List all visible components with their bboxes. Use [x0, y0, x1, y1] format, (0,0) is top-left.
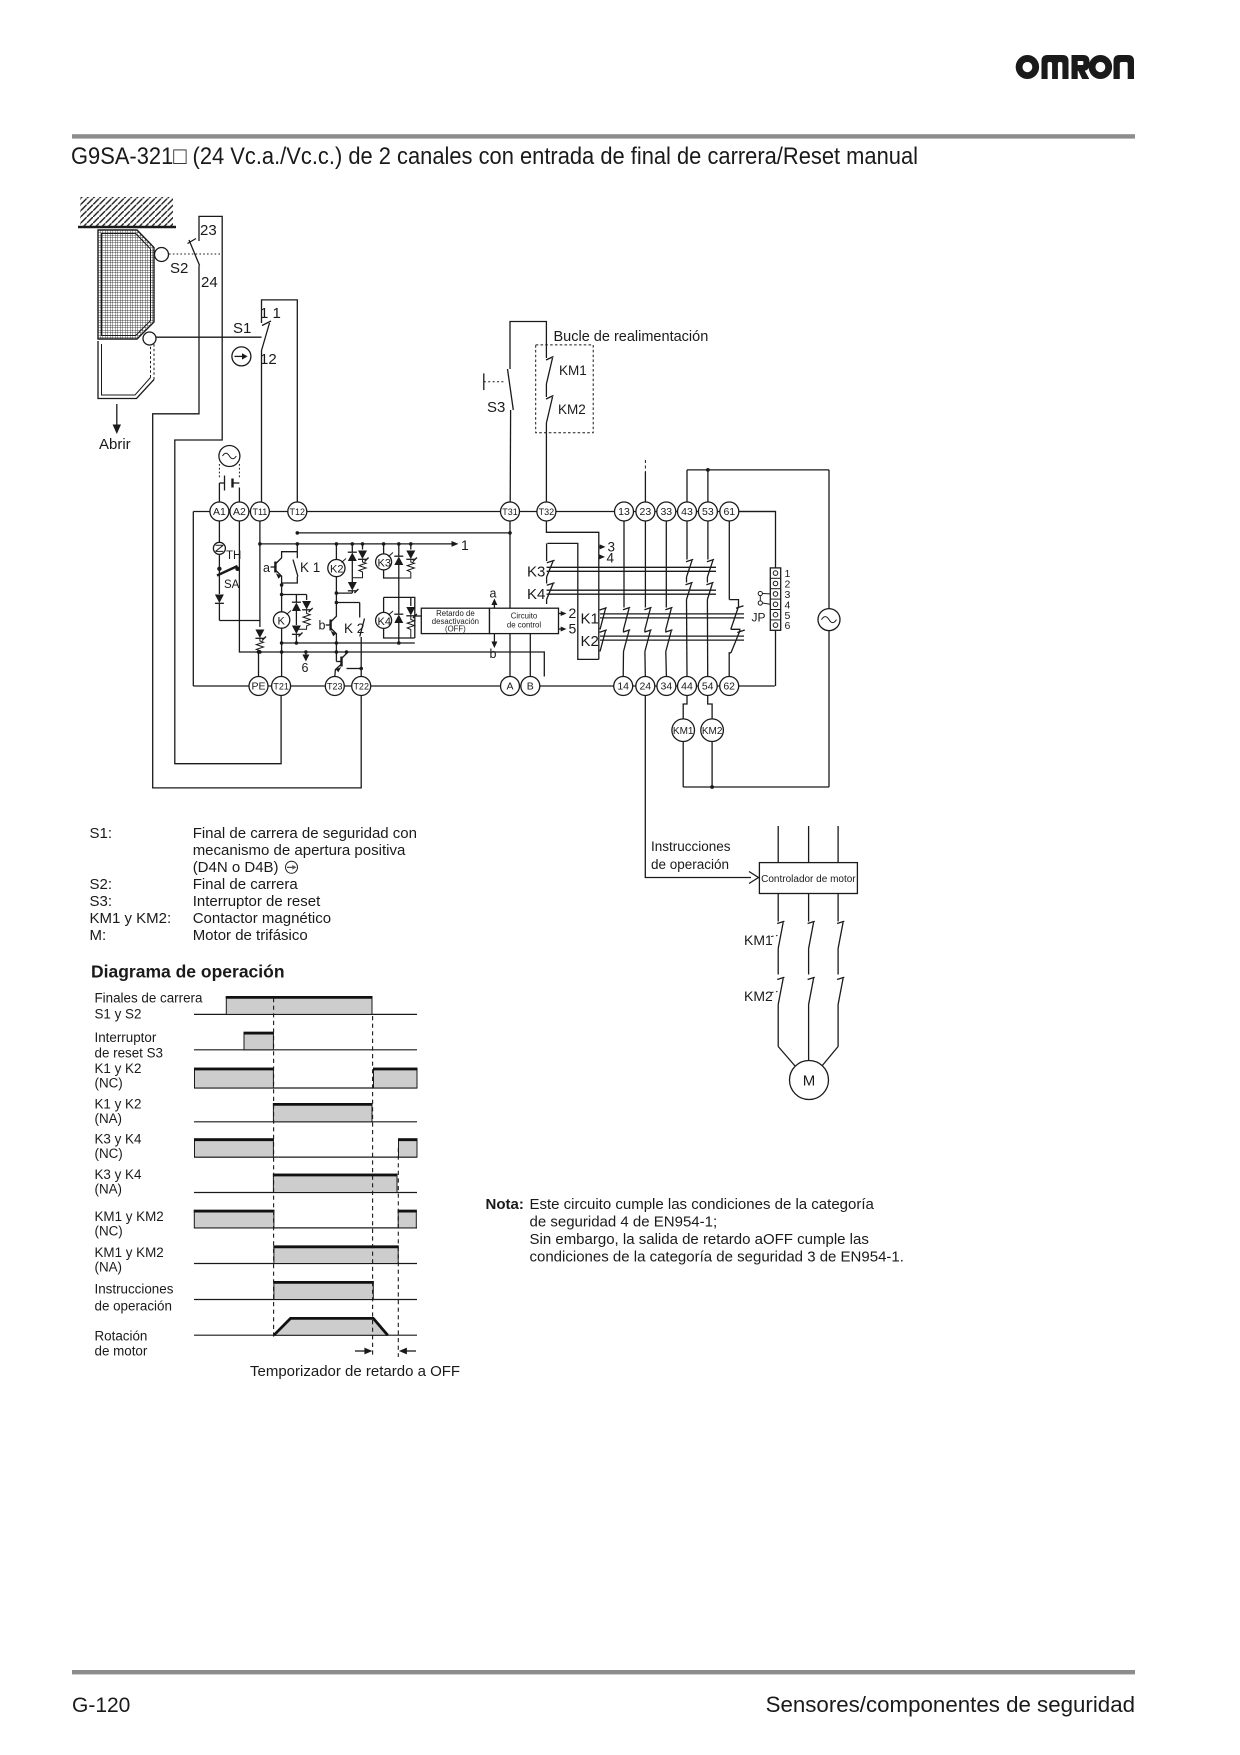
- svg-text:6: 6: [785, 620, 791, 632]
- svg-text:33: 33: [660, 506, 672, 518]
- terminal B: [521, 677, 540, 696]
- svg-text:KM1 y KM2:: KM1 y KM2:: [90, 910, 172, 927]
- svg-text:T21: T21: [273, 681, 289, 691]
- svg-text:K3: K3: [527, 564, 545, 581]
- wire loop to delay box: [415, 615, 422, 617]
- svg-text:K3 y K4: K3 y K4: [95, 1167, 142, 1182]
- svg-text:a: a: [490, 587, 497, 601]
- wire control box to A: [509, 634, 511, 677]
- svg-text:condiciones de la categoría de: condiciones de la categoría de seguridad…: [530, 1249, 904, 1266]
- svg-text:K3 y K4: K3 y K4: [95, 1132, 142, 1147]
- power supply battery (dashed link): [219, 464, 239, 491]
- svg-text:mecanismo de apertura positiva: mecanismo de apertura positiva: [193, 842, 406, 859]
- svg-text:S1:: S1:: [90, 825, 113, 842]
- terminal 24: [636, 677, 655, 696]
- motor M: [790, 1061, 829, 1100]
- K3 chain contact: [527, 543, 555, 580]
- JP pin labels: [785, 568, 791, 632]
- positive opening mini symbol: [286, 861, 298, 873]
- svg-text:K4: K4: [378, 616, 391, 628]
- svg-text:TH: TH: [226, 550, 241, 562]
- internal bus 3: [239, 521, 544, 677]
- power supply symbol (AC): [219, 446, 240, 467]
- transistor Qa: [263, 552, 297, 585]
- terminal 61: [720, 502, 739, 521]
- svg-text:62: 62: [723, 681, 735, 693]
- svg-text:61: 61: [723, 506, 735, 518]
- node 2 arrow: [559, 605, 577, 621]
- svg-text:de seguridad 4 de EN954-1;: de seguridad 4 de EN954-1;: [530, 1214, 718, 1231]
- svg-text:(OFF): (OFF): [445, 625, 466, 634]
- letter O2: [1089, 55, 1112, 79]
- zener DK2c: [348, 578, 359, 593]
- timing row 9 instrucciones: [95, 1282, 418, 1314]
- wire K2 coil bottom to diodes: [336, 592, 352, 594]
- svg-text:G9SA-321□ (24 Vc.a./Vc.c.) de: G9SA-321□ (24 Vc.a./Vc.c.) de 2 canales …: [71, 143, 918, 170]
- svg-text:6: 6: [302, 661, 309, 675]
- svg-text:4: 4: [607, 551, 615, 566]
- timing row 3 K1K2 NC: [95, 1061, 418, 1091]
- svg-text:K4: K4: [527, 586, 545, 603]
- junction dots internals: [257, 531, 512, 670]
- transistor Qb: [319, 614, 337, 652]
- surge diode T11: [255, 630, 266, 641]
- svg-text:T11: T11: [252, 507, 267, 517]
- svg-text:b: b: [319, 619, 326, 633]
- link chain rectangle: [547, 543, 598, 659]
- svg-text:T32: T32: [539, 507, 555, 517]
- svg-text:(NC): (NC): [95, 1146, 123, 1161]
- zener resistor string DK1b: [296, 595, 312, 630]
- KM2 power contacts: [744, 977, 844, 1060]
- delay interval arrows: [355, 1348, 416, 1355]
- svg-text:M: M: [803, 1073, 816, 1090]
- svg-text:Nota:: Nota:: [486, 1196, 524, 1213]
- relay contact K1: [282, 544, 321, 583]
- node 5 arrow: [559, 621, 577, 637]
- svg-text:KM2: KM2: [558, 402, 586, 417]
- terminal T11: [250, 502, 269, 521]
- KM2 coil: [701, 696, 724, 788]
- timing row 1 S1yS2: [95, 991, 418, 1022]
- svg-text:Interruptor: Interruptor: [95, 1030, 157, 1045]
- K3 linked pair lines: [547, 567, 716, 571]
- three phase feed stubs: [778, 826, 838, 863]
- svg-text:de operación: de operación: [651, 857, 729, 872]
- svg-text:JP: JP: [752, 611, 766, 625]
- svg-text:12: 12: [260, 351, 277, 368]
- svg-text:de control: de control: [507, 621, 542, 630]
- svg-text:K: K: [278, 616, 286, 628]
- terminal PE: [249, 677, 268, 696]
- letter N: [1114, 55, 1135, 79]
- svg-text:(NC): (NC): [95, 1224, 123, 1239]
- svg-text:(D4N o D4B): (D4N o D4B): [193, 859, 279, 876]
- relay coil K2: [328, 544, 346, 614]
- terminal T21: [272, 677, 291, 696]
- svg-text:(NA): (NA): [95, 1260, 123, 1275]
- zener resistor DK3b: [399, 544, 417, 578]
- svg-text:a: a: [263, 561, 270, 575]
- wire 24 to controller: [645, 696, 751, 878]
- wire S2 channel top U: [199, 216, 222, 254]
- wire JP bottom to 62: [775, 630, 777, 686]
- JP jumper block: [770, 568, 780, 630]
- right power rail: [828, 470, 830, 787]
- K1 chain contact: [600, 608, 607, 630]
- svg-text:K1 y K2: K1 y K2: [95, 1096, 142, 1111]
- relay coil K4: [376, 597, 415, 638]
- svg-text:T23: T23: [327, 681, 343, 691]
- roller upper: [155, 248, 169, 262]
- link bar vertical: [598, 557, 600, 660]
- svg-text:SA: SA: [224, 579, 240, 591]
- svg-text:(NA): (NA): [95, 1111, 123, 1126]
- coil return bus: [683, 785, 829, 789]
- svg-text:Temporizador de retardo a OFF: Temporizador de retardo a OFF: [250, 1363, 460, 1380]
- motor controller box: [759, 863, 857, 894]
- column 43 with delayed contacts: [686, 521, 694, 677]
- svg-text:2: 2: [569, 605, 577, 621]
- wire battery to A1 A2: [219, 483, 239, 502]
- svg-text:A: A: [506, 681, 513, 693]
- transistor Qc: [335, 652, 361, 677]
- timing row 7 KM NC: [95, 1209, 418, 1239]
- svg-text:A1: A1: [213, 506, 226, 518]
- internal bus 1 with arrow node 1: [260, 537, 469, 553]
- terminal T31: [501, 502, 520, 521]
- node 4 arrow: [599, 547, 615, 566]
- svg-text:KM1: KM1: [559, 363, 587, 378]
- svg-text:Bucle de realimentación: Bucle de realimentación: [554, 329, 709, 345]
- terminal A2: [230, 502, 249, 521]
- node a: [490, 587, 498, 609]
- terminal 23: [636, 502, 655, 521]
- svg-text:23: 23: [640, 506, 652, 518]
- svg-text:T31: T31: [502, 507, 518, 517]
- svg-text:Sensores/componentes de seguri: Sensores/componentes de seguridad: [766, 1692, 1135, 1717]
- wire T32 chain: [546, 521, 598, 547]
- svg-text:b: b: [490, 647, 497, 661]
- relay coil K (K1): [273, 585, 291, 677]
- K2 chain contact: [600, 630, 607, 652]
- K4 linked pair lines: [547, 590, 716, 594]
- internal bus 2: [297, 532, 510, 534]
- wire S2 ch2 to T21: [175, 254, 281, 764]
- stub above terminal 23: [644, 460, 646, 502]
- left outer rail: [192, 512, 194, 687]
- svg-text:T12: T12: [290, 507, 306, 517]
- internal bus 4: [282, 642, 415, 644]
- bottom terminal row wire: [193, 685, 775, 687]
- delay box Retardo: [421, 608, 489, 633]
- Instrucciones labels: [651, 839, 731, 872]
- timing row 5 K3K4 NC: [95, 1132, 418, 1162]
- column 33 with contacts: [665, 521, 672, 677]
- svg-text:B: B: [527, 681, 534, 693]
- feedback loop box (dashed): [536, 345, 594, 433]
- svg-text:Sin embargo, la salida de reta: Sin embargo, la salida de retardo aOFF c…: [530, 1231, 869, 1248]
- svg-text:A2: A2: [233, 506, 246, 518]
- wire S1 ch1 to T11: [261, 351, 263, 503]
- KM1 power contacts: [744, 894, 844, 975]
- svg-text:Final de carrera: Final de carrera: [193, 876, 299, 893]
- relay coil K3: [376, 544, 399, 578]
- jumper plug: [758, 591, 770, 605]
- contact KM1 (NC feedback): [546, 345, 587, 384]
- timing row 2 reset S3: [95, 1030, 418, 1061]
- svg-text:S3: S3: [487, 399, 505, 416]
- svg-text:5: 5: [569, 621, 577, 637]
- svg-text:S3:: S3:: [90, 893, 113, 910]
- svg-text:K 2: K 2: [344, 621, 364, 636]
- header rule: [72, 134, 1135, 138]
- svg-text:K1: K1: [581, 611, 599, 628]
- Nota block: [486, 1196, 904, 1266]
- svg-text:1: 1: [461, 537, 469, 553]
- letter O1: [1016, 55, 1039, 79]
- svg-text:44: 44: [681, 681, 693, 693]
- wire S1 channel top U: [262, 300, 298, 502]
- svg-text:K2: K2: [581, 633, 599, 650]
- top bus 43-53 to rail: [687, 468, 829, 502]
- svg-text:K 1: K 1: [300, 560, 320, 575]
- OMRON logo: [1016, 55, 1134, 79]
- motor leads: [778, 1047, 838, 1067]
- svg-text:1 1: 1 1: [260, 305, 281, 322]
- relay contact K2: [344, 603, 365, 677]
- svg-text:Controlador de motor: Controlador de motor: [761, 874, 856, 885]
- svg-text:K2: K2: [330, 564, 343, 576]
- terminal 43: [678, 502, 697, 521]
- diode DK3a: [394, 544, 403, 598]
- svg-text:24: 24: [639, 681, 651, 693]
- svg-text:Motor de trifásico: Motor de trifásico: [193, 927, 308, 944]
- wire A1 string to T11 column: [219, 620, 260, 622]
- AC source: [818, 609, 840, 631]
- timing row 6 K3K4 NA: [95, 1167, 418, 1197]
- terminal 33: [657, 502, 676, 521]
- diode D-A1: [215, 571, 224, 621]
- svg-text:de reset S3: de reset S3: [95, 1046, 163, 1061]
- terminal 14: [614, 677, 633, 696]
- node b: [490, 634, 498, 661]
- svg-text:(NC): (NC): [95, 1076, 123, 1091]
- guard door (open outline): [98, 341, 154, 399]
- svg-text:KM1: KM1: [744, 932, 773, 948]
- diode string DK1a: [282, 595, 307, 644]
- contact KM2 (NC feedback): [546, 384, 586, 433]
- diode DK2a: [348, 544, 357, 578]
- column 13 with contacts: [623, 521, 630, 677]
- svg-text:K1 y K2: K1 y K2: [95, 1061, 142, 1076]
- wire PE up: [258, 652, 260, 677]
- arrowhead into controller: [749, 872, 759, 884]
- K2 linked pair lines: [600, 636, 744, 640]
- zener resistor DK2b: [352, 544, 368, 578]
- svg-text:(NA): (NA): [95, 1182, 123, 1197]
- terminal A: [501, 677, 520, 696]
- KM1 coil: [672, 696, 695, 788]
- svg-text:54: 54: [702, 681, 714, 693]
- timing row 4 K1K2 NA: [95, 1096, 418, 1126]
- Abrir arrow: [99, 404, 131, 453]
- svg-text:T22: T22: [353, 681, 369, 691]
- zener resistor DK4b: [406, 597, 417, 638]
- terminal 44: [678, 677, 697, 696]
- legend: [90, 825, 417, 944]
- node 3 arrow: [599, 540, 615, 555]
- svg-text:KM2: KM2: [744, 988, 773, 1004]
- svg-text:Final de carrera de seguridad: Final de carrera de seguridad con: [193, 825, 417, 842]
- wall (hatched): [78, 197, 176, 227]
- K1 linked pair lines: [600, 614, 744, 618]
- timing row 8 KM NA: [95, 1245, 418, 1275]
- S3 pushbutton: [484, 344, 514, 416]
- diode DK4a: [394, 597, 403, 643]
- svg-text:Este circuito cumple las condi: Este circuito cumple las condiciones de …: [530, 1196, 875, 1213]
- svg-text:23: 23: [200, 222, 217, 239]
- column 61-62 NC contact: [729, 521, 745, 677]
- thermistor TH: [213, 521, 241, 562]
- svg-text:24: 24: [201, 274, 218, 291]
- column 53 with delayed contacts: [706, 521, 714, 677]
- svg-text:S1 y S2: S1 y S2: [95, 1007, 142, 1022]
- svg-text:Contactor magnético: Contactor magnético: [193, 910, 331, 927]
- svg-text:Instrucciones: Instrucciones: [651, 839, 731, 854]
- node 6 arrow: [302, 652, 310, 675]
- svg-text:34: 34: [661, 681, 673, 693]
- svg-text:M:: M:: [90, 927, 107, 944]
- svg-text:Instrucciones: Instrucciones: [95, 1282, 174, 1297]
- wire control box to B: [529, 634, 531, 677]
- terminal 13: [615, 502, 634, 521]
- svg-text:Interruptor de reset: Interruptor de reset: [193, 893, 321, 910]
- wire K2 coil to K2 contact: [336, 602, 359, 604]
- letter R: [1072, 55, 1090, 79]
- letter M: [1042, 55, 1069, 79]
- K4 chain contact: [527, 577, 555, 604]
- switch SA: [217, 554, 240, 591]
- terminal 54: [698, 677, 717, 696]
- terminal T23: [325, 677, 344, 696]
- roller lower: [143, 332, 156, 345]
- svg-text:Diagrama de operación: Diagrama de operación: [91, 962, 285, 982]
- svg-text:13: 13: [618, 506, 630, 518]
- contact 11-12 (S1): [260, 305, 281, 368]
- svg-text:KM1 y KM2: KM1 y KM2: [95, 1209, 164, 1224]
- S2 link (dotted): [169, 253, 222, 255]
- svg-text:14: 14: [617, 681, 629, 693]
- svg-text:K3: K3: [378, 557, 391, 569]
- svg-text:Circuito: Circuito: [511, 612, 538, 621]
- svg-text:53: 53: [702, 506, 714, 518]
- timing dashed guide lines: [274, 998, 399, 1357]
- control box Circuito: [490, 608, 559, 633]
- top terminal row wire: [193, 511, 776, 513]
- svg-text:KM1 y KM2: KM1 y KM2: [95, 1245, 164, 1260]
- svg-text:S1: S1: [233, 320, 251, 337]
- svg-text:de motor: de motor: [95, 1344, 148, 1359]
- terminal T22: [352, 677, 371, 696]
- wire T11 column: [259, 521, 261, 627]
- footer rule: [72, 1670, 1135, 1674]
- wire S3 top loop: [510, 322, 546, 345]
- contact 23-24 (S2): [188, 222, 218, 291]
- column 23 with contacts: [644, 521, 651, 677]
- svg-text:43: 43: [681, 506, 693, 518]
- surge resistor T11: [256, 638, 263, 652]
- terminal 62: [720, 677, 739, 696]
- timing row 10 rotacion: [95, 1318, 418, 1359]
- wire 61 to JP: [739, 512, 776, 568]
- svg-text:PE: PE: [251, 681, 265, 693]
- terminal T12: [288, 502, 307, 521]
- svg-text:S2:: S2:: [90, 876, 113, 893]
- wire S2 ch1 to T22: [153, 266, 362, 788]
- svg-text:KM2: KM2: [702, 726, 723, 737]
- terminal 34: [657, 677, 676, 696]
- K4 loop top wire: [384, 597, 415, 638]
- svg-text:Finales de carrera: Finales de carrera: [95, 991, 203, 1006]
- wire S3 to T31: [509, 410, 511, 502]
- svg-text:Rotación: Rotación: [95, 1329, 148, 1344]
- guard door (closed, grid): [98, 230, 154, 339]
- positive opening symbol: [232, 347, 251, 366]
- terminal 53: [698, 502, 717, 521]
- svg-text:de operación: de operación: [95, 1299, 172, 1314]
- terminal A1: [210, 502, 229, 521]
- svg-text:KM1: KM1: [673, 726, 694, 737]
- svg-text:S2: S2: [170, 260, 188, 277]
- svg-text:Abrir: Abrir: [99, 436, 131, 453]
- terminal T32: [537, 502, 556, 521]
- S1 mechanical link: [156, 336, 262, 338]
- svg-text:G-120: G-120: [72, 1694, 130, 1717]
- wire T31 column to control box: [509, 521, 511, 608]
- wire KM feedback to T32: [545, 433, 547, 502]
